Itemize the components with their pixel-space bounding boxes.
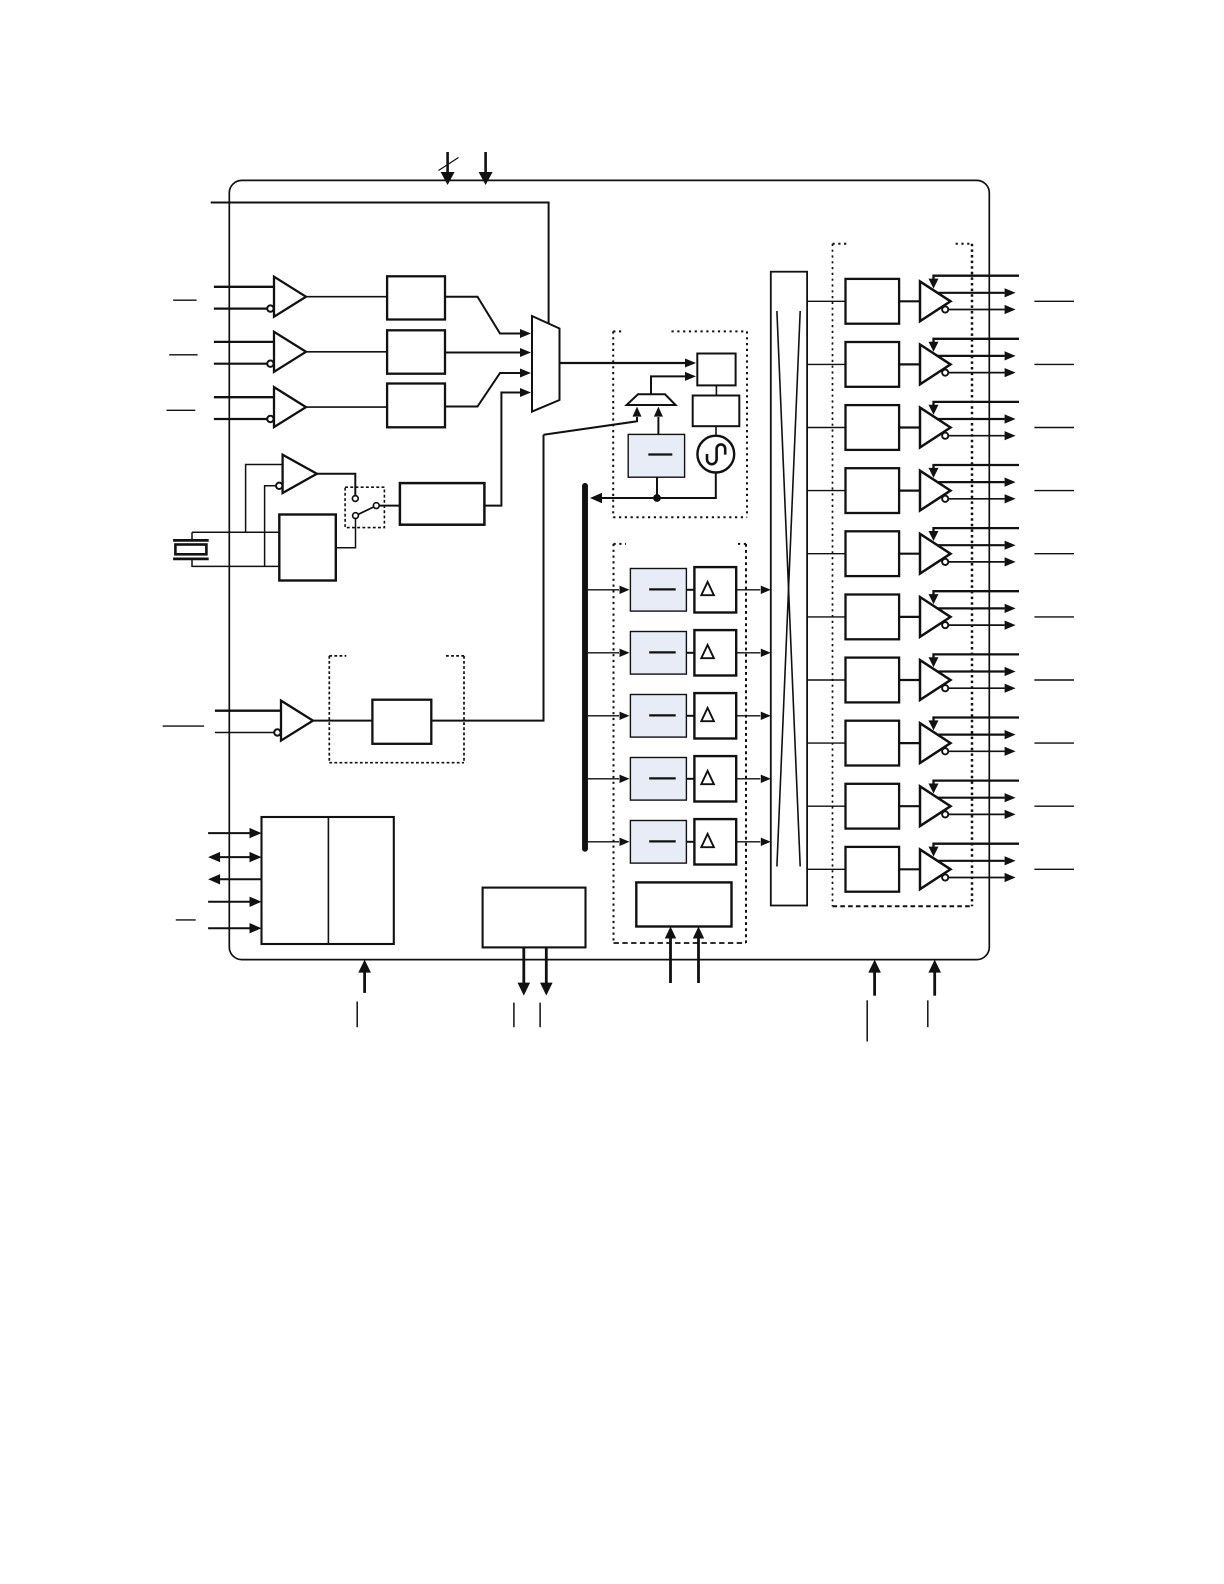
label line OUT0 <box>1034 300 1074 302</box>
wire: external feedback into feedback mux <box>544 417 638 435</box>
wire: OUT2 complement output <box>949 435 1005 437</box>
block: output divider 1 (division) <box>630 632 686 675</box>
block: input stage 2 <box>387 330 445 373</box>
wire: config 0 to output driver <box>899 300 920 302</box>
wire: OUT1 complement output <box>949 372 1005 374</box>
block: output channel config 1 <box>846 342 900 387</box>
wire: bus to divider 3 input <box>588 778 619 780</box>
input buffer A3 (differential receiver) <box>274 387 306 427</box>
block: delay adjust 3 (delta) <box>694 756 736 801</box>
output driver Q9 (differential) <box>920 849 951 889</box>
wire: crosspoint to output config 5 <box>807 616 845 618</box>
inversion bubble on driver 9 <box>942 874 948 880</box>
block: phase frequency detector PFD <box>697 354 735 386</box>
wire: OUT2 true output <box>937 418 1005 420</box>
wire: output enable into driver 3 <box>934 465 1020 469</box>
wire: config 9 to output driver <box>899 868 920 870</box>
crystal X1 (external) <box>191 532 193 540</box>
inversion bubble on driver 7 <box>942 748 948 754</box>
wire: OUT0 complement output <box>949 309 1005 311</box>
wire: VCO output to bus <box>601 473 716 499</box>
wire: bus to divider 0 input <box>588 589 619 591</box>
mux: feedback select (small trapezoid) <box>627 394 676 405</box>
wire: input stage 1 to mux input 1 <box>445 297 521 334</box>
input buffer A2 (differential receiver) <box>274 332 306 372</box>
pin arrow: control input A0 <box>208 901 250 903</box>
wire: OSC output to switch <box>336 519 356 548</box>
pin arrow: control input SCL <box>208 832 250 834</box>
block: output channel config 2 <box>846 405 900 450</box>
pin arrow: control output interrupt <box>219 878 262 880</box>
wire: output enable into driver 1 <box>934 339 1020 343</box>
wire: IN1 negative input <box>214 308 267 310</box>
label line OUT3 <box>1034 490 1074 492</box>
wire: osc buffer negative input <box>265 486 277 567</box>
block: output divider 3 (division) <box>630 758 686 801</box>
wire: config 7 to output driver <box>899 742 920 744</box>
wire: delay block 4 to crosspoint <box>736 841 760 843</box>
chip boundary outline <box>229 180 989 959</box>
wire: input stage 2 to mux input 2 <box>445 352 521 354</box>
label line OUT8 <box>1034 805 1074 807</box>
pin arrow: VDD supply (bottom left) <box>363 972 366 993</box>
wire: OUT4 true output <box>937 544 1005 546</box>
block: output channel config 9 <box>846 847 900 892</box>
wire: config 4 to output driver <box>899 553 920 555</box>
wire: input stage 3 to mux input 3 <box>445 373 521 407</box>
wire: IN3 positive input <box>215 710 281 712</box>
wire: config 1 to output driver <box>899 363 920 365</box>
wire: crosspoint to output config 8 <box>807 805 845 807</box>
switch throw contact top <box>352 496 358 502</box>
wire: feedback mux to phase detector <box>651 376 685 394</box>
wire: crosspoint to output config 1 <box>807 363 845 365</box>
wire: OUT7 complement output <box>949 750 1005 752</box>
wire: crosspoint to output config 0 <box>807 300 845 302</box>
pin arrow: SDM control input 2 <box>697 938 700 984</box>
block: output channel config 8 <box>846 784 900 829</box>
block: sigma-delta modulator <box>636 882 731 926</box>
PLL dashed enclosure <box>613 330 622 332</box>
block: output channel config 4 <box>846 531 900 576</box>
wire: bus to divider 2 input <box>588 715 619 717</box>
wire: PFD to loop filter <box>715 385 717 395</box>
wire: output enable into driver 5 <box>934 591 1020 595</box>
switch common contact <box>373 503 379 509</box>
label tick status 1 <box>513 1003 515 1028</box>
wire: mux output to phase detector <box>560 362 686 364</box>
wire: config 8 to output driver <box>899 805 920 807</box>
wire: IN3 negative input <box>214 418 267 420</box>
wire: config 2 to output driver <box>899 426 920 428</box>
label line IN1 <box>169 354 197 356</box>
wire: crosspoint to output config 9 <box>807 868 845 870</box>
input buffer A1 (differential receiver) <box>274 277 306 317</box>
wire: config 6 to output driver <box>899 679 920 681</box>
wire: divider 0 to delay block <box>686 589 694 591</box>
wire: OUT6 complement output <box>949 687 1005 689</box>
wire: OUT3 true output <box>937 481 1005 483</box>
wire: divider bottom tap <box>656 477 658 498</box>
dashed enclosure: output drivers <box>833 243 848 245</box>
wire: buffer A3 to input stage 3 <box>306 406 387 408</box>
wire: delay block 0 to crosspoint <box>736 589 760 591</box>
output driver Q6 (differential) <box>920 660 951 700</box>
block: output channel config 6 <box>846 658 900 703</box>
wire: bus to divider 1 input <box>588 652 619 654</box>
wire: switch common to jitter block <box>379 505 400 507</box>
output driver Q5 (differential) <box>920 597 951 637</box>
wire: LF divider to feedback path <box>431 435 543 721</box>
wire: buffer A1 to input stage 1 <box>306 296 387 298</box>
wire: IN3 positive input <box>214 396 274 398</box>
pin arrow: SDM control input 1 <box>669 938 672 984</box>
block: output divider 2 (division) <box>630 695 686 738</box>
wire: OUT8 true output <box>937 797 1005 799</box>
pin arrow: control bus input (top, with bus slash) <box>446 152 449 173</box>
mux: reference select (trapezoid) <box>532 316 560 412</box>
wire: crystal top lead <box>192 531 279 533</box>
label line OUT7 <box>1034 742 1074 744</box>
output driver Q4 (differential) <box>920 534 951 574</box>
output driver Q8 (differential) <box>920 786 951 826</box>
block: output channel config 7 <box>846 721 900 766</box>
wire: OUT9 complement output <box>949 877 1005 879</box>
wire: output enable into driver 4 <box>934 528 1020 532</box>
wire: OUT9 true output <box>937 860 1005 862</box>
block: low-frequency divider <box>372 700 431 744</box>
VCO (circle with sine glyph) <box>697 436 734 473</box>
block: output divider 4 (division) <box>630 821 686 864</box>
pin arrow: supply input (bottom right 1) <box>873 972 876 996</box>
switch throw contact bottom <box>353 513 359 519</box>
inversion bubble on driver 0 <box>942 306 948 312</box>
wire: OUT5 complement output <box>949 624 1005 626</box>
wire: OUT8 complement output <box>949 813 1005 815</box>
label line IN2 <box>167 409 196 411</box>
pin arrow: control bidirectional SDA <box>219 856 251 858</box>
block: delay adjust 0 (delta) <box>694 567 736 612</box>
crosspoint route line B <box>777 311 800 867</box>
inversion bubble on driver 6 <box>942 685 948 691</box>
inversion bubble on driver 4 <box>942 559 948 565</box>
wire: crosspoint to output config 7 <box>807 742 845 744</box>
pin arrow: status output INTR <box>545 947 548 983</box>
crosspoint route line A <box>777 311 800 867</box>
input buffer A4 (low frequency reference) <box>281 701 313 741</box>
wire: crosspoint to output config 2 <box>807 427 845 429</box>
block: input stage 1 <box>387 276 445 319</box>
wire: config 3 to output driver <box>899 490 920 492</box>
label line IN3 <box>163 725 205 727</box>
wire: bus to divider 4 input <box>588 841 619 843</box>
wire: osc buffer positive input <box>246 465 283 533</box>
block: delay adjust 4 (delta) <box>694 819 736 864</box>
label line OUT6 <box>1034 679 1074 681</box>
wire: crosspoint to output config 3 <box>807 490 845 492</box>
wire: output enable into driver 8 <box>934 781 1020 785</box>
label line IN0 <box>173 299 197 301</box>
wire: output enable into driver 9 <box>934 844 1020 848</box>
oscillator buffer A5 <box>283 455 317 493</box>
wire: crosspoint to output config 6 <box>807 679 845 681</box>
wire: crystal bottom lead <box>192 565 279 567</box>
label line OUT5 <box>1034 616 1074 618</box>
inversion bubble on driver 3 <box>942 496 948 502</box>
wire: top control line into mux select <box>211 203 549 324</box>
block: input stage 3 <box>387 384 445 428</box>
wire: IN1 positive input <box>214 286 274 288</box>
wire: crystal path to mux input 4 <box>484 393 520 506</box>
wire: OUT5 true output <box>937 607 1005 609</box>
wire: config 5 to output driver <box>899 616 920 618</box>
output driver Q3 (differential) <box>920 471 951 511</box>
dashed enclosure: holdover block <box>329 655 346 657</box>
wire: delay block 2 to crosspoint <box>736 715 760 717</box>
block: reference conditioning <box>400 483 485 525</box>
wire: divider 3 to delay block <box>686 778 694 780</box>
wire: osc buffer output to switch <box>317 474 355 496</box>
pin arrow: control input A1 <box>208 927 250 929</box>
output driver Q7 (differential) <box>920 723 951 763</box>
junction: feedback node <box>654 495 661 502</box>
block: output crosspoint switch matrix <box>771 272 807 906</box>
output driver Q2 (differential) <box>920 408 951 448</box>
wire: IN3 negative input <box>215 732 274 734</box>
label line control pin <box>176 919 196 921</box>
block: delay adjust 2 (delta) <box>694 693 736 738</box>
label line OUT4 <box>1034 553 1074 555</box>
wire: output enable into driver 2 <box>934 402 1020 406</box>
block: serial control interface / registers <box>262 817 394 944</box>
bus: VCO clock distribution (thick bar) <box>582 486 588 849</box>
label line OUT1 <box>1034 363 1074 365</box>
label line OUT2 <box>1034 427 1074 429</box>
inversion bubble on driver 8 <box>942 811 948 817</box>
wire: delay block 1 to crosspoint <box>736 652 760 654</box>
inversion bubble on driver 2 <box>942 433 948 439</box>
block: PLL feedback divider (N) <box>628 434 684 477</box>
wire: output enable into driver 7 <box>934 718 1020 722</box>
wire: OUT3 complement output <box>949 498 1005 500</box>
label tick supply 1 <box>866 1000 868 1041</box>
label tick supply 2 <box>927 1000 929 1027</box>
wire: delay block 3 to crosspoint <box>736 778 760 780</box>
switch lever <box>359 507 374 514</box>
label line OUT9 <box>1034 868 1074 870</box>
block: crystal oscillator OSC <box>279 515 336 581</box>
wire: OUT1 true output <box>937 355 1005 357</box>
wire: OUT7 true output <box>937 733 1005 735</box>
pin arrow: supply input (bottom right 2) <box>933 972 936 996</box>
wire: loop filter to VCO <box>715 426 717 436</box>
output driver Q1 (differential) <box>920 345 951 385</box>
dashed enclosure: output divider bank <box>614 543 627 545</box>
output driver Q0 (differential) <box>920 281 951 321</box>
block: output channel config 0 <box>846 279 900 324</box>
block: status monitor <box>483 888 586 948</box>
wire: OUT0 true output <box>937 292 1005 294</box>
wire: divider 2 to delay block <box>686 715 694 717</box>
wire: IN2 positive input <box>214 341 274 343</box>
wire: buffer A2 to input stage 2 <box>306 351 387 353</box>
pin arrow: status output LOL <box>522 947 525 983</box>
switch: clock source select (dashed box) <box>345 487 384 527</box>
wire: output enable into driver 6 <box>934 654 1020 658</box>
inversion bubble on driver 1 <box>942 370 948 376</box>
wire: buffer A4 to LF divider <box>313 720 372 722</box>
block: loop filter <box>693 396 740 427</box>
block: delay adjust 1 (delta) <box>694 630 736 675</box>
wire: OUT4 complement output <box>949 561 1005 563</box>
wire: divider to feedback mux <box>657 417 659 434</box>
block: output channel config 3 <box>846 468 900 513</box>
inversion bubble on driver 5 <box>942 622 948 628</box>
wire: crosspoint to output config 4 <box>807 553 845 555</box>
wire: divider 4 to delay block <box>686 841 694 843</box>
wire: output enable into driver 0 <box>934 276 1020 280</box>
wire: OUT6 true output <box>937 670 1005 672</box>
pin arrow: top input 2 <box>484 152 487 173</box>
block: output channel config 5 <box>846 595 900 640</box>
label tick status 2 <box>539 1003 541 1028</box>
block: output divider 0 (division) <box>630 569 686 612</box>
wire: IN2 negative input <box>214 363 267 365</box>
label tick VDD <box>356 1002 358 1028</box>
wire: divider 1 to delay block <box>686 652 694 654</box>
